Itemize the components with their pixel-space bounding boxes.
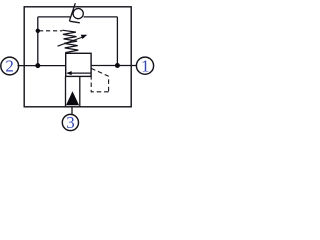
dashed pilot loop bottom-left [91, 77, 108, 92]
wire drain channel right [79, 76, 81, 106]
spring [62, 30, 78, 52]
svg-text:1: 1 [141, 56, 150, 75]
svg-text:2: 2 [5, 57, 14, 76]
envelope rectangle [24, 7, 131, 107]
poppet triangle [66, 91, 79, 105]
port 3 circle [62, 114, 78, 130]
junction dot port1 [115, 63, 120, 68]
adjustment arrow head [81, 35, 88, 39]
wire port 3 stub [71, 107, 73, 115]
wire port 1 line [91, 65, 136, 67]
svg-text:3: 3 [66, 113, 75, 132]
dashed pilot loop right [91, 68, 108, 91]
wire left vertical branch [37, 17, 39, 66]
dashed vent line [39, 30, 62, 32]
junction dot vent [36, 29, 40, 33]
wire drain channel left [65, 76, 67, 106]
junction dot port2 [35, 63, 40, 68]
port 2 circle [1, 57, 19, 75]
check valve CV1 ball [73, 9, 83, 19]
wire top pilot line right segment [84, 16, 118, 18]
flow arrow head [66, 71, 72, 75]
port 1 circle [136, 57, 153, 74]
wire top pilot line left segment [38, 16, 71, 18]
wire port 2 line [18, 65, 66, 67]
flow arrow inside body [71, 72, 91, 74]
wire right vertical branch [116, 17, 118, 66]
check valve CV1 seat [69, 3, 79, 23]
adjustment arrow shaft [58, 37, 85, 47]
valve body U1 [66, 53, 91, 76]
